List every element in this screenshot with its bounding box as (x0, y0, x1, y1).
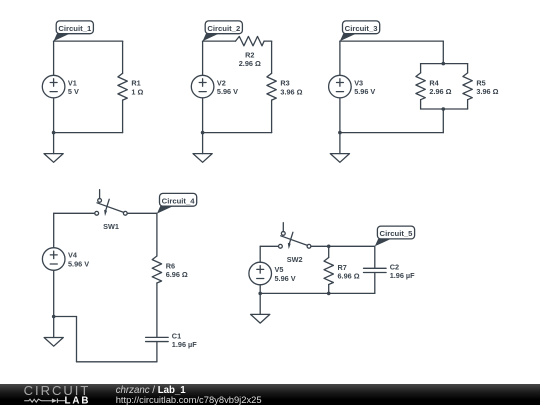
svg-text:6.96 Ω: 6.96 Ω (338, 272, 360, 281)
wire circuit3 bottom (340, 132, 443, 134)
wire circuit3 down (442, 109, 444, 133)
resistor R7 (324, 258, 360, 285)
svg-text:3.96 Ω: 3.96 Ω (476, 87, 498, 96)
resistor R4 (416, 73, 452, 100)
resistor R2 (236, 36, 265, 68)
wire circuit3 top (340, 40, 443, 42)
wire parallel top bar (421, 63, 468, 65)
node junction circuit3 (338, 131, 342, 135)
node tag Circuit_4 (157, 193, 197, 213)
svg-text:V2: V2 (217, 78, 226, 87)
node tag Circuit_2 (203, 21, 243, 41)
ground circuit3 (330, 133, 349, 163)
switch SW2 (279, 223, 311, 264)
node tag Circuit_5 (375, 226, 415, 246)
svg-text:Circuit_2: Circuit_2 (207, 24, 240, 33)
wire circuit2 top-left (203, 40, 236, 42)
footer bar (0, 384, 540, 405)
wire V5 top lead (259, 246, 261, 262)
voltage source V4 (42, 248, 89, 271)
node junction parallel bottom (442, 107, 446, 111)
svg-text:LAB: LAB (65, 395, 91, 405)
resistor R5 (463, 73, 499, 100)
node junction R7 bottom (327, 292, 331, 296)
node tag Circuit_3 (340, 21, 380, 41)
wire V3 top lead (339, 41, 341, 75)
capacitor C2 (364, 262, 416, 280)
logo resistor squiggle (24, 399, 52, 402)
wire circuit2 bottom (203, 132, 272, 134)
wire to V4 junction (54, 316, 77, 318)
wire R5 bottom lead (467, 100, 469, 109)
svg-text:SW1: SW1 (103, 222, 119, 231)
wire C2 top lead (374, 246, 376, 268)
svg-text:2.96 Ω: 2.96 Ω (239, 59, 261, 68)
logo diode (52, 399, 57, 403)
wire V2 top lead (202, 41, 204, 75)
wire circuit3 drop to parallel (442, 41, 444, 64)
wire V1 bottom lead (53, 98, 55, 133)
wire R3 top lead (271, 41, 273, 73)
svg-text:V3: V3 (354, 78, 363, 87)
svg-text:3.96 Ω: 3.96 Ω (280, 87, 302, 96)
wire V1 top lead (53, 41, 55, 75)
wire circuit1 top (54, 40, 123, 42)
voltage source V3 (329, 75, 376, 98)
wire C2 bottom lead (374, 273, 376, 294)
resistor R1 (118, 73, 144, 100)
wire parallel bottom bar (421, 108, 468, 110)
wire V5 bottom lead (259, 285, 261, 294)
wire switch to C2 node (311, 245, 375, 247)
wire R4 top lead (420, 64, 422, 73)
wire V4 top lead (53, 213, 55, 247)
wire R7 bottom lead (328, 285, 330, 294)
wire circuit4 top-left (54, 212, 95, 214)
svg-text:V4: V4 (68, 251, 78, 260)
svg-text:Circuit_5: Circuit_5 (380, 229, 414, 238)
wire V3 bottom lead (339, 98, 341, 133)
wire circuit4 left riser (76, 317, 78, 362)
svg-text:5.96 V: 5.96 V (354, 87, 375, 96)
svg-text:V1: V1 (68, 78, 77, 87)
switch SW1 (95, 190, 127, 231)
CircuitLab logo (0, 384, 110, 405)
ground circuit4 (44, 317, 63, 347)
svg-text:SW2: SW2 (287, 255, 303, 264)
svg-text:V5: V5 (275, 265, 284, 274)
svg-text:5.96 V: 5.96 V (275, 274, 296, 283)
wire circuit2 top-right (264, 40, 272, 42)
wire V4 bottom lead (53, 270, 55, 316)
node junction R7 top (327, 245, 331, 249)
wire R5 top lead (467, 64, 469, 73)
capacitor C1 (146, 331, 198, 349)
wire R6 top lead (156, 213, 158, 256)
svg-text:6.96 Ω: 6.96 Ω (166, 270, 188, 279)
svg-text:Circuit_1: Circuit_1 (58, 24, 92, 33)
svg-text:1 Ω: 1 Ω (131, 87, 143, 96)
wire C1 bottom lead (156, 342, 158, 362)
wire R1 top lead (122, 41, 124, 73)
wire R3 bottom lead (271, 100, 273, 133)
svg-text:2.96 Ω: 2.96 Ω (429, 87, 451, 96)
svg-text:Circuit_4: Circuit_4 (162, 196, 196, 205)
svg-text:5.96 V: 5.96 V (68, 260, 89, 269)
voltage source V5 (249, 262, 296, 285)
node junction circuit2 (201, 131, 205, 135)
wire R4 bottom lead (420, 100, 422, 109)
svg-text:5 V: 5 V (68, 87, 79, 96)
svg-text:1.96 µF: 1.96 µF (172, 340, 197, 349)
wire R7 top lead (328, 246, 330, 257)
ground circuit5 (251, 293, 270, 323)
voltage source V2 (191, 75, 238, 98)
voltage source V1 (42, 75, 79, 98)
node junction circuit4 (52, 315, 56, 319)
node junction circuit1 (52, 131, 56, 135)
resistor R3 (267, 73, 303, 100)
wire R6 to C1 (156, 283, 158, 337)
wire switch to node (127, 212, 157, 214)
svg-text:5.96 V: 5.96 V (217, 87, 238, 96)
svg-text:1.96 µF: 1.96 µF (390, 271, 415, 280)
ground circuit1 (44, 133, 63, 163)
resistor R6 (152, 256, 188, 283)
node tag Circuit_1 (54, 21, 94, 41)
wire V2 bottom lead (202, 98, 204, 133)
footer text (116, 385, 262, 405)
wire circuit1 bottom (54, 132, 123, 134)
ground circuit2 (193, 133, 212, 163)
node junction parallel top (442, 62, 446, 66)
wire circuit4 bottom (77, 361, 157, 363)
wire R1 bottom lead (122, 100, 124, 133)
node junction circuit5 left (258, 292, 262, 296)
wire circuit5 top-left (260, 245, 278, 247)
svg-text:Circuit_3: Circuit_3 (345, 24, 378, 33)
wire circuit5 bottom (260, 292, 375, 294)
